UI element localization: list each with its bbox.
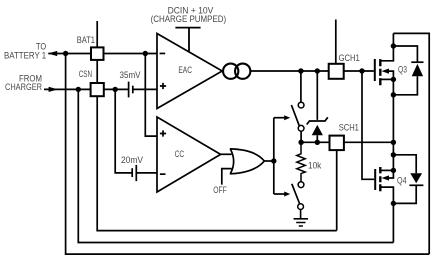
ground	[294, 210, 308, 227]
label 20mV	[121, 155, 143, 165]
transistor Q3 body arrow	[382, 69, 390, 74]
junction dot or-gate output node	[271, 158, 276, 163]
transistor Q4 gate bar	[374, 169, 376, 190]
switch S1 bottom contact	[298, 125, 304, 131]
wire battery feedback left vertical	[66, 54, 430, 255]
wire CSN feedback vertical	[97, 96, 337, 230]
svg-text:BAT1: BAT1	[77, 35, 95, 45]
diode D4 triangle	[410, 173, 422, 183]
wire OFF input	[222, 169, 232, 185]
arrow control lower (points right)	[284, 192, 290, 197]
junction dot Q4 drain / body node	[391, 168, 396, 173]
EAC minus sign	[160, 53, 166, 55]
wire SCH1 to Q3/Q4 node	[344, 141, 394, 143]
label EAC	[178, 65, 192, 75]
junction dot Q4 source node	[391, 201, 396, 206]
pin box SCH1	[330, 136, 344, 151]
transistor Q3 channel segments	[379, 59, 381, 85]
wire 20mV to CC minus input	[136, 172, 157, 174]
wire CC output to or-gate	[221, 153, 232, 155]
junction dot Q3 source	[391, 77, 396, 82]
wire or-gate output	[264, 160, 274, 162]
wire control arrow upper shaft	[274, 117, 285, 119]
label 35mV	[120, 70, 141, 80]
label CC	[175, 149, 185, 159]
diode D3 anode wire	[393, 76, 417, 95]
label BAT1	[77, 35, 95, 45]
switch S2 lever	[292, 184, 300, 204]
pin box GCH1	[329, 64, 344, 79]
label 10k	[308, 161, 322, 171]
transistor Q4 body arrow	[382, 175, 390, 180]
svg-text:OFF: OFF	[213, 185, 227, 195]
or-gate U1	[230, 149, 264, 174]
wire 35mV to EAC plus input	[133, 88, 157, 90]
wire CC minus branch (from CSN line down)	[115, 89, 132, 172]
label Q4	[397, 175, 407, 185]
svg-text:CC: CC	[175, 149, 185, 159]
svg-text:20mV: 20mV	[121, 155, 143, 165]
junction dot switch1 branch	[298, 68, 303, 73]
switch S1 top contact	[298, 102, 304, 108]
battery 35mV long plate	[128, 82, 130, 98]
wire GCH1 pin stub up	[335, 20, 337, 64]
wire switch S1 bottom	[300, 131, 302, 142]
junction dot SCH1 node	[391, 140, 396, 145]
junction dot battery node	[63, 51, 68, 56]
label GCH1	[339, 53, 360, 63]
pin box CSN	[91, 83, 104, 96]
diode D3 cathode bar	[411, 61, 423, 63]
diode D4 (Q4 body) anode wire	[393, 155, 416, 173]
battery 20mV long plate	[135, 165, 137, 181]
diode D4 cathode wire	[393, 185, 416, 203]
svg-text:35mV: 35mV	[120, 70, 141, 80]
wire control arrow lower shaft	[274, 193, 285, 195]
wire switch control vertical	[273, 118, 275, 194]
label CSN	[79, 69, 92, 79]
junction dot Q3 drain / diode node	[391, 43, 396, 48]
wire SCH1 pin stub down	[336, 150, 338, 231]
power rail DCIN bar	[175, 28, 200, 52]
transistor Q4 channel segments	[379, 167, 381, 191]
svg-text:BATTERY 1: BATTERY 1	[4, 51, 46, 61]
svg-text:CSN: CSN	[79, 69, 92, 79]
wire top right (battery to Q3 drain)	[393, 33, 429, 254]
zener diode D1 wire bottom	[316, 135, 318, 142]
svg-text:GCH1: GCH1	[339, 53, 360, 63]
arrow TO BATTERY 1 (points left)	[48, 51, 57, 56]
current source pair (mirror) circle 2	[235, 64, 250, 79]
node TO BATTERY 1 label	[4, 42, 46, 61]
wire FROM CHARGER entry	[44, 88, 91, 90]
label OFF	[213, 185, 227, 195]
transistor Q4 drain stub	[382, 169, 394, 171]
battery 20mV short plate	[131, 168, 133, 177]
junction dot Q3 diode anode	[391, 92, 396, 97]
wire TO BATTERY 1 entry	[48, 53, 91, 55]
svg-text:Q4: Q4	[397, 175, 407, 185]
arrow control upper (points right)	[284, 115, 290, 120]
junction dot switch node	[298, 140, 303, 145]
wire gate branch down to Q4 gate	[362, 71, 374, 179]
transistor Q3 source stub	[382, 78, 394, 80]
current source pair (mirror) circle 1	[223, 64, 238, 79]
junction dot charger node	[76, 87, 81, 92]
op-amp EAC	[157, 34, 222, 109]
EAC plus sign	[160, 83, 166, 89]
wire switch S1 top	[300, 71, 302, 102]
label SCH1	[339, 123, 359, 133]
wire current source output to GCH1	[250, 70, 328, 72]
transistor Q3 drain stub	[382, 33, 394, 60]
junction dot gate branch	[359, 68, 364, 73]
zener diode D1 wire top	[316, 71, 318, 120]
resistor/pin box BAT1	[91, 47, 104, 60]
junction dot CC plus branch	[143, 51, 148, 56]
wire CC plus branch (from battery node down)	[145, 54, 157, 137]
wire Q3 source down chain	[392, 79, 394, 170]
arrow FROM CHARGER (points right)	[49, 87, 58, 92]
diode D3 triangle	[412, 64, 423, 76]
label Q3	[398, 65, 407, 75]
label DCIN + 10V	[151, 6, 227, 25]
CC plus sign	[160, 130, 166, 136]
transistor Q4 source stub	[382, 187, 394, 203]
switch S1 lever	[291, 105, 299, 126]
switch S2 top contact	[298, 182, 304, 188]
wire Q4 source down	[392, 203, 394, 242]
wire Q3 arrow to source	[389, 71, 394, 79]
zener diode D1 triangle	[312, 125, 323, 135]
svg-text:Q3: Q3	[398, 65, 407, 75]
svg-text:(CHARGE PUMPED): (CHARGE PUMPED)	[151, 14, 227, 24]
junction dot zener branch	[315, 68, 320, 73]
node FROM CHARGER label	[5, 73, 42, 92]
wire BAT1 pin stub up	[96, 21, 98, 47]
op-amp CC	[157, 117, 221, 192]
svg-text:SCH1: SCH1	[339, 123, 359, 133]
junction dot CC minus branch	[113, 87, 118, 92]
diode D3 (Q3 body) cathode wire	[393, 46, 417, 62]
wire BAT1 to EAC minus input	[104, 53, 158, 55]
junction dot zener anode node	[315, 140, 320, 145]
junction dot Q4 diode node	[391, 152, 396, 157]
svg-text:10k: 10k	[308, 161, 322, 171]
wire CSN to 35mV battery	[104, 88, 128, 90]
battery 35mV short plate	[132, 86, 134, 94]
diode D4 cathode bar	[409, 184, 423, 186]
svg-text:CHARGER: CHARGER	[5, 82, 42, 92]
wire charger feedback vertical	[78, 89, 393, 242]
wire BAT1 box to CSN box	[96, 60, 98, 83]
transistor Q3 gate bar	[374, 59, 376, 81]
wire Q4 arrow to drain node	[389, 170, 394, 178]
resistor R1 10k (zigzag)	[297, 142, 305, 182]
switch S2 bottom contact	[298, 204, 304, 210]
CC minus sign	[160, 173, 166, 175]
wire switch node to SCH1	[301, 141, 329, 143]
svg-text:EAC: EAC	[178, 65, 192, 75]
wire GCH1 to Q3 gate	[344, 70, 374, 72]
zener diode D1 cathode bar	[307, 117, 328, 124]
